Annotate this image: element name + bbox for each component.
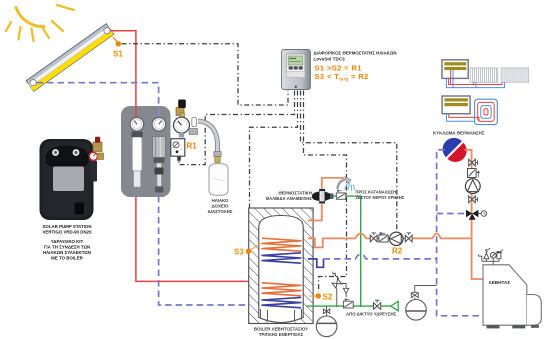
svg-text:BOILER ΛΕΒΗΤΟΣΤΑΣΙΟΥ: BOILER ΛΕΒΗΤΟΣΤΑΣΙΟΥ xyxy=(254,327,308,332)
svg-text:ΤΡΙΠΛΗΣ ΕΝΕΡΓΕΙΑΣ: ΤΡΙΠΛΗΣ ΕΝΕΡΓΕΙΑΣ xyxy=(259,332,304,337)
svg-text:ΒΑΛΒΙΔΑ ΑΝΑΜΕΙΞΗΣ: ΒΑΛΒΙΔΑ ΑΝΑΜΕΙΞΗΣ xyxy=(266,196,312,201)
svg-text:R2: R2 xyxy=(392,247,403,256)
svg-text:S2: S2 xyxy=(323,293,333,302)
svg-text:ΜΕ ΤΟ BOILER: ΜΕ ΤΟ BOILER xyxy=(51,256,83,261)
svg-text:S3: S3 xyxy=(234,248,244,257)
svg-text:ΔΙΑΣΤΟΛΗΣ: ΔΙΑΣΤΟΛΗΣ xyxy=(208,209,233,214)
svg-text:VERTIGO VRD-90 DN20: VERTIGO VRD-90 DN20 xyxy=(42,230,92,235)
svg-text:ΘΕΡΜΟΣΤΑΤΙΚΗ: ΘΕΡΜΟΣΤΑΤΙΚΗ xyxy=(278,191,312,196)
svg-text:SOLAR PUMP STATION: SOLAR PUMP STATION xyxy=(42,224,91,229)
svg-text:S1: S1 xyxy=(113,50,123,59)
svg-text:ΓΙΑ ΤΗ ΣΥΝΔΕΣΗ ΤΩΝ: ΓΙΑ ΤΗ ΣΥΝΔΕΣΗ ΤΩΝ xyxy=(44,245,90,250)
svg-text:ΚΥΚΛΩΜΑ ΘΕΡΜΑΝΣΗΣ: ΚΥΚΛΩΜΑ ΘΕΡΜΑΝΣΗΣ xyxy=(433,131,485,136)
svg-text:ΖΕΣΤΟΥ ΝΕΡΟΥ ΧΡΗΣΗΣ: ΖΕΣΤΟΥ ΝΕΡΟΥ ΧΡΗΣΗΣ xyxy=(356,195,405,200)
svg-text:ΔΟΧΕΙΟ: ΔΟΧΕΙΟ xyxy=(212,204,230,209)
svg-text:ΗΛΙΑΚΟ: ΗΛΙΑΚΟ xyxy=(212,198,229,203)
svg-text:LovaSol TDC3: LovaSol TDC3 xyxy=(314,57,346,62)
svg-text:ΑΠΟ ΔΙΚΤΥΟ ΥΔΡΕΥΣΗΣ: ΑΠΟ ΔΙΚΤΥΟ ΥΔΡΕΥΣΗΣ xyxy=(346,312,397,317)
svg-text:ΠΡΟΣ ΚΑΤΑΝΑΛΩΣΗ: ΠΡΟΣ ΚΑΤΑΝΑΛΩΣΗ xyxy=(356,190,397,195)
svg-text:ΥΔΡΑΥΛΙΚΟ ΚΙΤ: ΥΔΡΑΥΛΙΚΟ ΚΙΤ xyxy=(51,239,84,244)
svg-text:ΗΛΙΑΚΩΝ ΣΥΛΛΕΚΤΩΝ: ΗΛΙΑΚΩΝ ΣΥΛΛΕΚΤΩΝ xyxy=(43,250,91,255)
svg-text:R1: R1 xyxy=(187,142,198,151)
svg-text:ΛΕΒΗΤΑΣ: ΛΕΒΗΤΑΣ xyxy=(489,280,511,285)
svg-text:ΔΙΑΦΟΡΙΚΟΣ ΘΕΡΜΟΣΤΑΤΗΣ ΗΛΙΑΚΩΝ: ΔΙΑΦΟΡΙΚΟΣ ΘΕΡΜΟΣΤΑΤΗΣ ΗΛΙΑΚΩΝ xyxy=(314,51,397,56)
